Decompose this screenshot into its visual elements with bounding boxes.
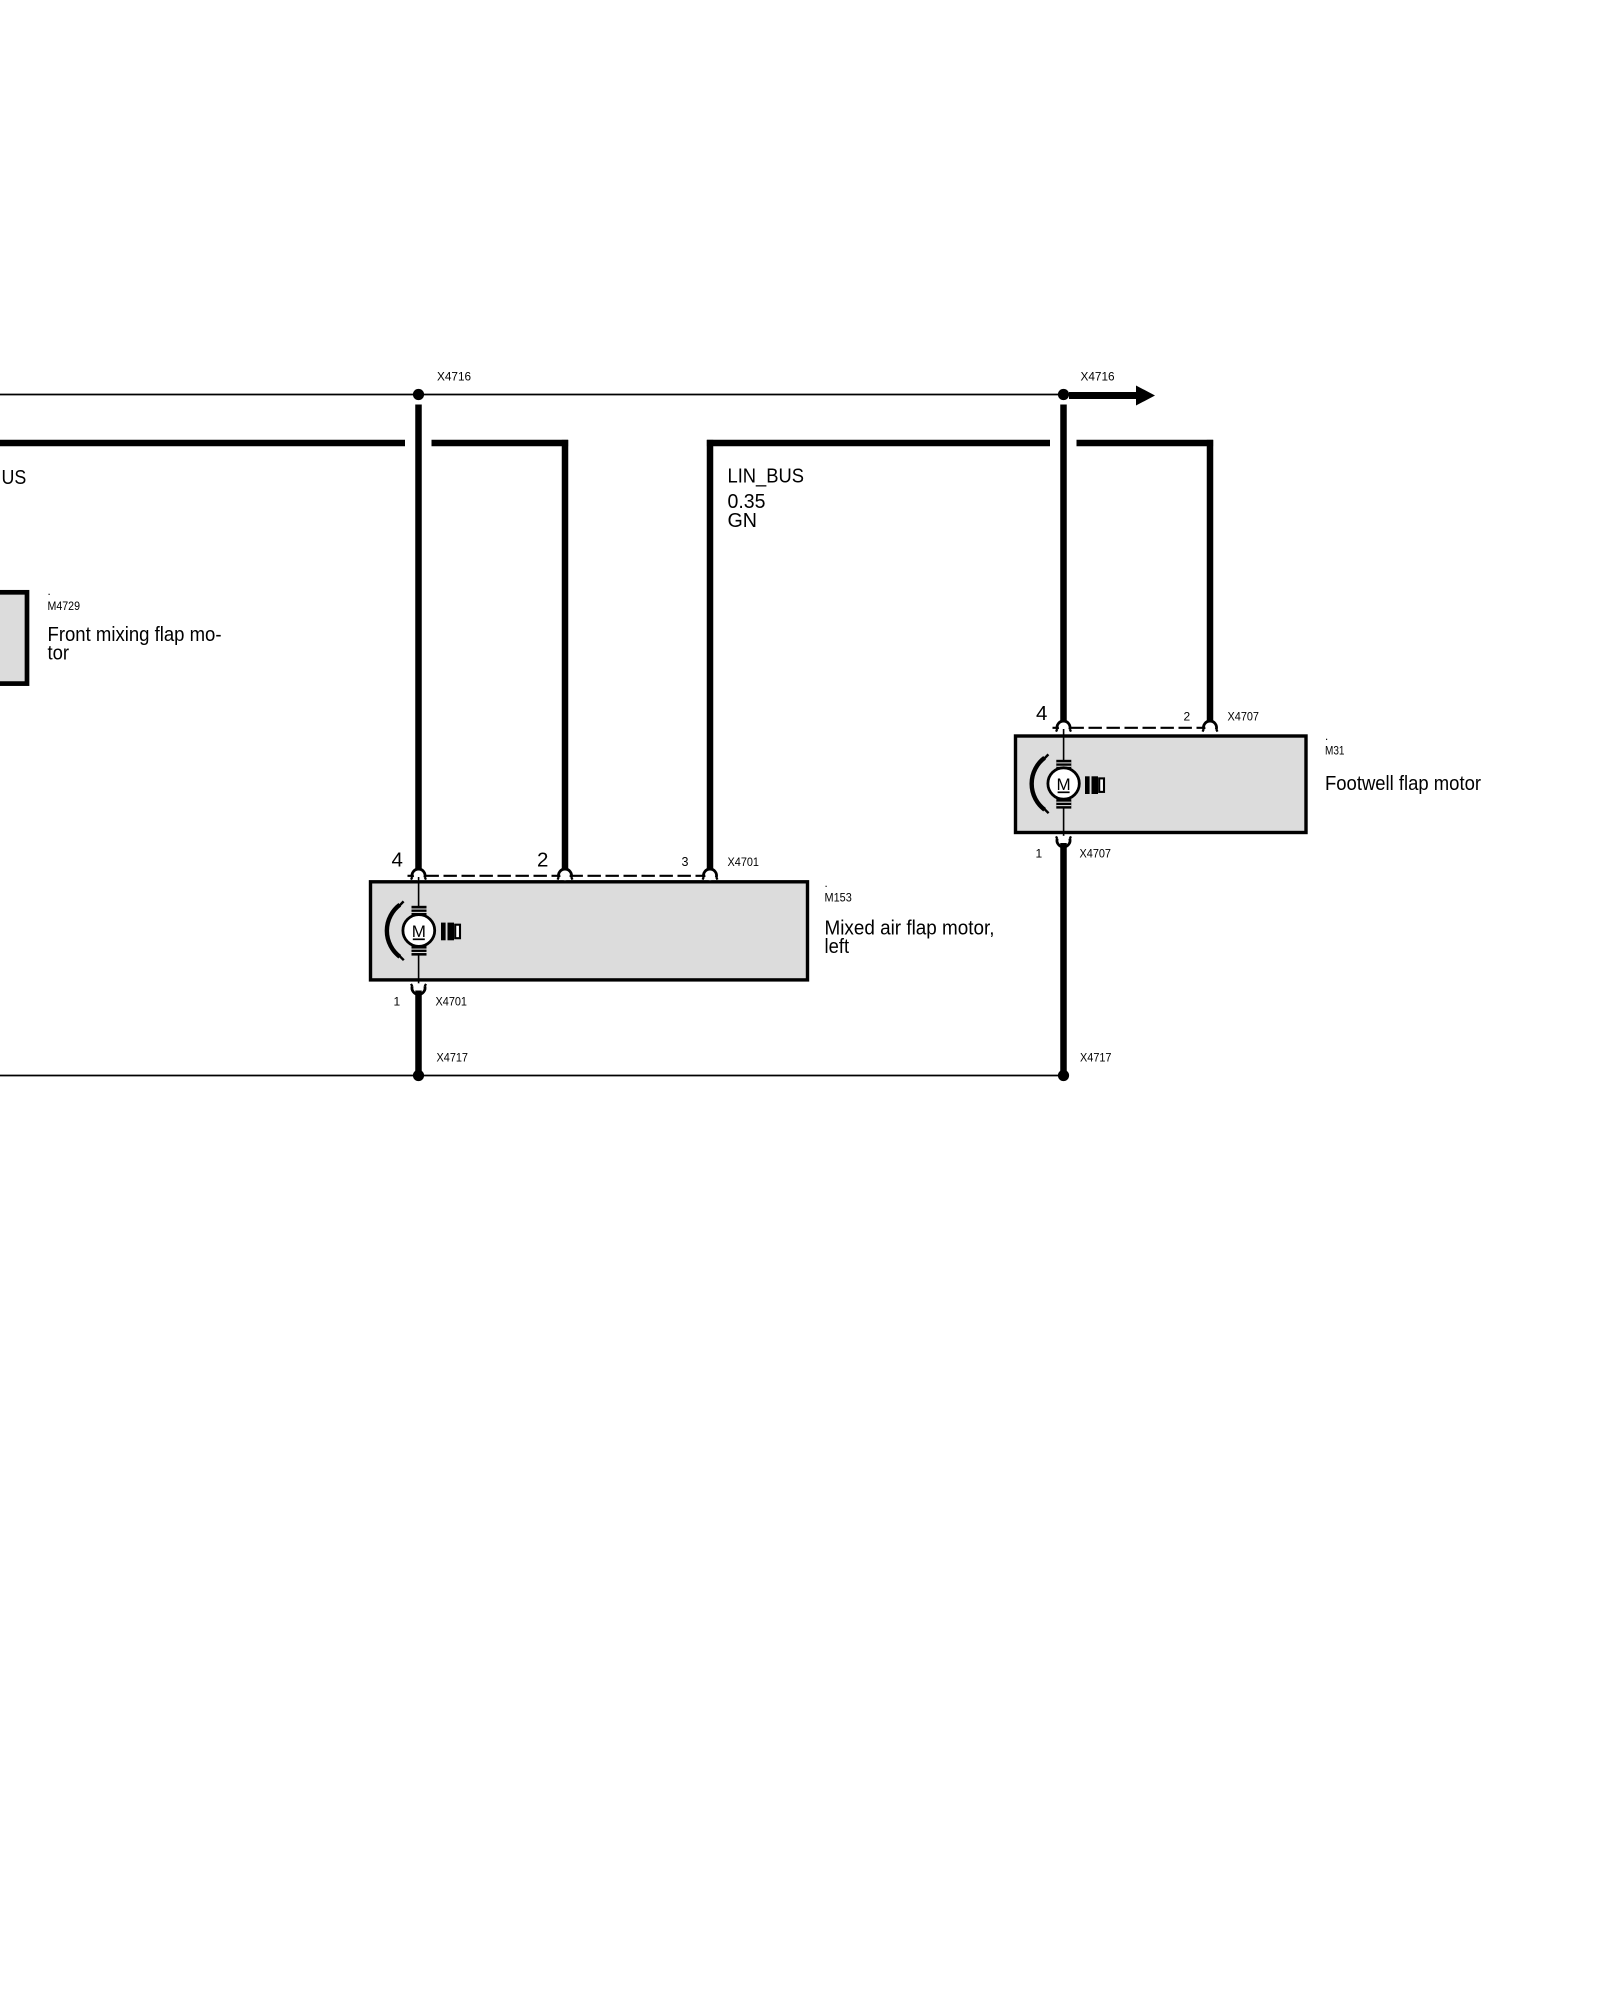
connector dashed line X4701	[408, 875, 714, 877]
motor M153 lead bottom	[418, 955, 420, 984]
svg-text:3: 3	[682, 855, 689, 869]
svg-text:M: M	[412, 922, 426, 941]
wire LIN_BUS left horizontal segment	[0, 440, 405, 447]
motor M31 box	[1016, 736, 1307, 833]
motor M31 lead bottom	[1063, 808, 1065, 837]
svg-text:LIN_BUS: LIN_BUS	[728, 465, 805, 488]
svg-text:Front mixing flap mo-: Front mixing flap mo-	[48, 623, 222, 646]
svg-text:M153: M153	[825, 893, 852, 905]
wire vertical from node X4716 to pin 4 footwell	[1060, 405, 1067, 722]
svg-text:tor: tor	[48, 642, 70, 665]
motor M31 terminal top	[1056, 760, 1071, 770]
svg-text:GN: GN	[728, 509, 758, 532]
node X4716 junction right	[1058, 389, 1069, 400]
svg-text:X4701: X4701	[728, 855, 760, 869]
wire arrow continuation right	[1069, 386, 1155, 406]
svg-text:X4716: X4716	[437, 370, 472, 384]
svg-text:Footwell flap motor: Footwell flap motor	[1325, 772, 1481, 795]
motor M31 rotation arc	[1032, 754, 1049, 813]
svg-text:X4707: X4707	[1080, 847, 1112, 861]
motor M153 position sensor icon	[441, 923, 460, 941]
wire pin1 footwell to X4717	[1060, 843, 1067, 1076]
svg-text:4: 4	[1036, 702, 1047, 725]
wire vertical drop to pin 3 mixed	[707, 440, 714, 870]
svg-text:M: M	[1057, 775, 1071, 794]
pin socket 4 mixed	[411, 869, 426, 880]
svg-text:2: 2	[537, 849, 548, 872]
svg-text:.: .	[825, 878, 828, 890]
pin socket 1 footwell bottom	[1056, 836, 1071, 847]
pin socket 4 footwell	[1056, 721, 1071, 732]
svg-text:M31: M31	[1325, 746, 1345, 758]
motor M153 terminal bottom	[412, 946, 427, 956]
node X4717 junction right	[1058, 1070, 1069, 1081]
motor M31 letter M	[1057, 775, 1071, 794]
control unit box left edge	[0, 592, 27, 683]
motor M31 lead top	[1063, 729, 1065, 761]
svg-text:X4717: X4717	[437, 1051, 469, 1065]
motor M153 letter M	[412, 922, 426, 941]
motor M31 body circle	[1048, 768, 1079, 799]
svg-text:1: 1	[1036, 847, 1043, 861]
svg-text:US: US	[2, 466, 27, 489]
svg-text:X4701: X4701	[436, 995, 468, 1009]
motor M153 box	[371, 882, 808, 980]
svg-text:2: 2	[1184, 710, 1191, 724]
svg-text:X4707: X4707	[1228, 710, 1260, 724]
pin socket 3 mixed	[703, 869, 718, 880]
svg-text:4: 4	[392, 849, 403, 872]
motor M31 position sensor icon	[1085, 776, 1104, 794]
node X4717 junction left	[413, 1070, 424, 1081]
svg-text:left: left	[825, 935, 850, 958]
svg-text:X4717: X4717	[1080, 1051, 1112, 1065]
svg-text:.: .	[1325, 731, 1328, 743]
motor M153 terminal top	[412, 906, 427, 916]
wire X4716 bus thin horizontal	[0, 394, 1064, 396]
pin socket 2 footwell	[1203, 721, 1218, 732]
wire vertical drop to pin 2 footwell	[1207, 440, 1214, 722]
wire pin1 mixed to X4717	[415, 991, 422, 1076]
motor M31 terminal bottom	[1056, 799, 1071, 809]
wire LIN_BUS horizontal to corner	[432, 440, 569, 447]
motor M153 lead top	[418, 877, 420, 907]
connector dashed line X4707	[1053, 727, 1213, 729]
wire vertical from node X4716 to pin 4 mixed	[415, 405, 422, 870]
svg-text:M4729: M4729	[48, 601, 81, 613]
svg-text:1: 1	[394, 995, 401, 1009]
wire X4717 bus thin horizontal	[0, 1075, 1064, 1077]
svg-text:X4716: X4716	[1081, 370, 1116, 384]
wire LIN_BUS right horizontal segment	[707, 440, 1050, 447]
svg-text:.: .	[48, 586, 51, 598]
wire vertical drop to pin 2 mixed	[562, 440, 569, 870]
wire LIN_BUS horizontal to corner right	[1077, 440, 1214, 447]
pin socket 2 mixed	[558, 869, 573, 880]
motor M153 body circle	[403, 915, 435, 947]
svg-text:Mixed air flap motor,: Mixed air flap motor,	[825, 917, 995, 940]
node X4716 junction left	[413, 389, 424, 400]
motor M153 rotation arc	[387, 901, 404, 960]
pin socket 1 mixed bottom	[411, 983, 426, 994]
